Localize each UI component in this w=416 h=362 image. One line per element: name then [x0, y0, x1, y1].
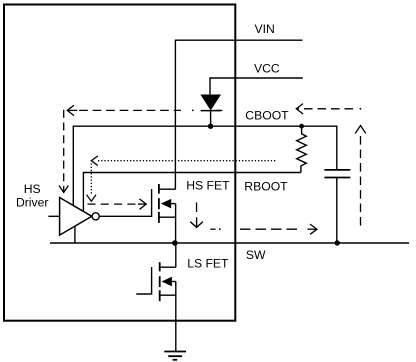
wire: SW pin line	[50, 242, 409, 244]
wire: CBOOT net (driver supply riser, CBOOT pin line, cap top lead)	[73, 126, 337, 205]
wire: HS driver return to SW	[74, 226, 76, 243]
svg-text:Driver: Driver	[16, 195, 49, 209]
transistor LS FET	[160, 243, 176, 352]
dotted gate-charge path: vertical with down arrow	[87, 164, 96, 202]
resistor RBOOT	[297, 128, 307, 173]
op-amp U1: HS driver triangle	[60, 198, 92, 236]
capacitor CBOOT (external bootstrap cap)	[324, 170, 350, 243]
node: bootstrap cap return on SW	[335, 240, 340, 245]
wire: RBOOT return to HS driver supply	[83, 173, 301, 212]
dashed loop: bottom horizontal with right arrow	[210, 224, 317, 234]
svg-text:CBOOT: CBOOT	[245, 108, 289, 122]
inverter bubble	[92, 213, 99, 220]
dashed loop: right vertical with up arrow	[355, 126, 366, 230]
dashed loop: top-left horizontal with left arrow	[67, 105, 222, 115]
transistor HS FET	[159, 184, 176, 243]
diode (VCC to CBOOT)	[201, 95, 221, 126]
wire: VCC pin line down to diode anode	[210, 78, 303, 94]
wire: LS FET gate lead	[136, 267, 151, 294]
ground	[164, 352, 186, 360]
svg-text:VIN: VIN	[255, 22, 275, 36]
IC block outline	[4, 5, 235, 321]
svg-text:VCC: VCC	[254, 62, 280, 76]
wire: VIN pin line and VIN rail down to HS FET drain	[175, 40, 302, 189]
dashed loop: left vertical with down arrow	[59, 110, 68, 193]
dotted gate-charge path: horizontal with left arrow	[91, 156, 275, 166]
svg-text:HS: HS	[24, 182, 41, 196]
dashed loop: top-right horizontal with left arrow	[296, 104, 361, 114]
wire: HS driver input	[48, 215, 59, 217]
node: diode cathode / CBOOT junction	[208, 124, 213, 129]
svg-text:LS FET: LS FET	[187, 257, 229, 271]
svg-text:RBOOT: RBOOT	[244, 179, 288, 193]
svg-text:SW: SW	[246, 248, 266, 262]
dashed arrow: driver output to HS gate drive path	[88, 199, 147, 209]
svg-text:I: I	[195, 200, 199, 215]
svg-text:HS FET: HS FET	[186, 178, 230, 192]
node: CBOOT / RBOOT junction	[299, 124, 304, 129]
node: HS source / LS drain junction on SW	[172, 240, 178, 246]
current arrow I down	[190, 217, 203, 227]
wire: driver output to HS FET gate	[99, 189, 151, 216]
